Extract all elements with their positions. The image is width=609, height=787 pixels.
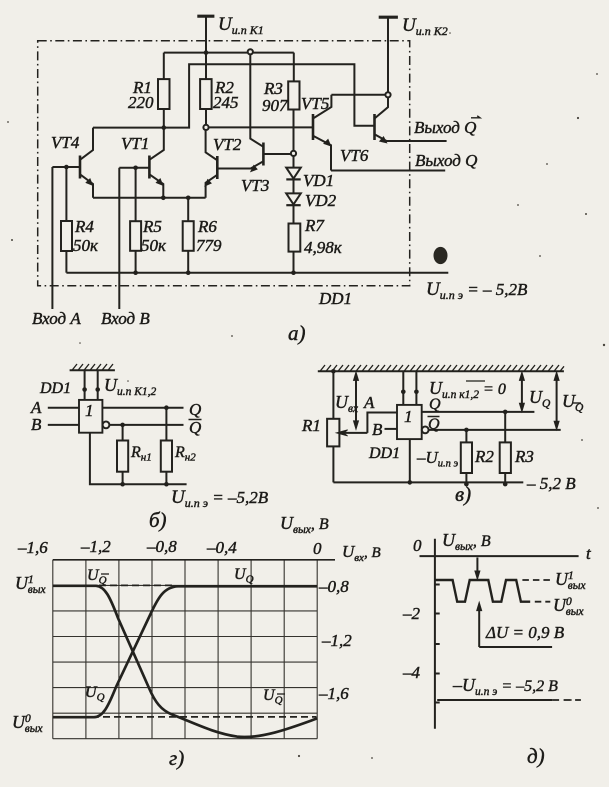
- svg-text:–Uи.п э = –5,2 В: –Uи.п э = –5,2 В: [452, 675, 558, 698]
- diode VD2: [286, 193, 301, 204]
- power rail symbol U_ipk1: [197, 15, 214, 18]
- svg-text:а): а): [288, 321, 306, 345]
- transistor VT1: [148, 156, 151, 179]
- y axis d: [434, 539, 436, 729]
- wire Uipk2 vertical: [387, 17, 389, 95]
- node dots: [64, 50, 296, 275]
- wire output Q b: [102, 407, 183, 409]
- wire diode chain: [293, 153, 295, 223]
- wire output Q v: [422, 411, 535, 413]
- UQ measure arrow v: [521, 378, 523, 407]
- wire input B b: [48, 424, 79, 426]
- deltaU leader d: [479, 646, 552, 648]
- DD1 dash-dot boundary box: [38, 41, 410, 286]
- ink blob artifact: [434, 247, 448, 264]
- resistor R5: [135, 168, 137, 221]
- wire input A: [51, 167, 53, 309]
- svg-text:DD1: DD1: [39, 380, 71, 397]
- deltaU arrow down d: [476, 558, 478, 574]
- svg-text:0: 0: [313, 539, 322, 558]
- svg-text:R1: R1: [301, 416, 321, 435]
- logic element DD1 box v: [397, 405, 422, 439]
- svg-text:–1,6: –1,6: [17, 538, 48, 557]
- svg-text:Выход Q: Выход Q: [414, 118, 476, 137]
- deltaU arrow up d: [478, 608, 480, 648]
- resistor R3 v: [504, 412, 506, 443]
- Uvx measure arrow v: [355, 378, 357, 424]
- node rings: [203, 49, 390, 156]
- dashed level U1 g: [88, 584, 174, 586]
- svg-text:R3: R3: [514, 447, 534, 466]
- svg-text:907: 907: [262, 96, 289, 115]
- curve UQbar g: [53, 586, 317, 737]
- ground hatch bar v: [318, 370, 564, 372]
- graph grid g: [53, 560, 317, 739]
- wire emitter bus: [93, 197, 206, 199]
- resistor R3: [293, 53, 295, 82]
- svg-text:Q: Q: [429, 396, 441, 413]
- transistor VT3: [262, 143, 265, 166]
- svg-text:DD1: DD1: [318, 289, 352, 308]
- svg-text:R4: R4: [74, 217, 94, 236]
- svg-text:0: 0: [413, 536, 422, 555]
- svg-text:B: B: [372, 420, 383, 439]
- svg-text:Вход В: Вход В: [101, 309, 150, 328]
- wire output Qbar b: [109, 424, 183, 426]
- svg-text:R5: R5: [142, 217, 162, 236]
- -5,2V level d: [437, 699, 552, 701]
- wire output Q lower: [331, 170, 445, 172]
- inversion bubble b: [103, 422, 110, 429]
- svg-text:R6: R6: [197, 217, 217, 236]
- transistor VT5: [312, 114, 315, 140]
- wire Uipk1 vertical: [205, 16, 207, 52]
- wiper arrow R1: [341, 432, 367, 434]
- wire top K1 bus: [164, 52, 294, 54]
- svg-text:220: 220: [128, 93, 154, 112]
- transistor VT2: [216, 156, 219, 179]
- wire K2 collector line: [331, 94, 388, 96]
- svg-text:Выход Q: Выход Q: [415, 151, 477, 170]
- svg-text:VT6: VT6: [340, 146, 369, 165]
- svg-text:VT2: VT2: [213, 135, 242, 154]
- svg-text:245: 245: [213, 93, 239, 112]
- svg-text:VT4: VT4: [51, 133, 80, 152]
- inversion bubble v: [422, 427, 429, 434]
- svg-text:VT5: VT5: [301, 94, 329, 113]
- svg-text:1: 1: [404, 407, 413, 426]
- svg-text:VT1: VT1: [121, 134, 149, 153]
- svg-text:779: 779: [196, 236, 222, 255]
- svg-text:4,98к: 4,98к: [304, 238, 343, 257]
- waveform d: [435, 580, 530, 602]
- resistor R2 v: [465, 430, 467, 443]
- resistor R7: [289, 224, 301, 252]
- wire wiper to A input v: [367, 413, 397, 433]
- svg-text:50к: 50к: [73, 236, 99, 255]
- wire power pins b: [85, 370, 98, 400]
- svg-text:–4: –4: [402, 663, 421, 682]
- node dots v: [331, 369, 507, 486]
- resistor R4: [65, 167, 67, 221]
- resistor R6: [187, 198, 189, 221]
- wire input B stub v: [385, 428, 398, 430]
- wire NOR collectors to VT6 base: [93, 64, 375, 127]
- svg-text:VD2: VD2: [305, 191, 337, 210]
- wire bottom rail b: [90, 433, 187, 485]
- transistor VT4: [79, 156, 82, 179]
- svg-text:1: 1: [85, 401, 94, 420]
- svg-text:Вход А: Вход А: [32, 309, 81, 328]
- svg-text:– 5,2 В: – 5,2 В: [526, 474, 576, 493]
- power rail symbol U_ipk2: [379, 16, 398, 19]
- transistor VT6: [373, 114, 376, 140]
- wire bottom rail: [66, 272, 448, 274]
- svg-text:Q: Q: [189, 418, 201, 437]
- wire bottom rail v: [333, 439, 523, 482]
- svg-text:–0,8: –0,8: [146, 537, 177, 556]
- svg-text:д): д): [527, 744, 545, 768]
- svg-text:ΔU = 0,9 В: ΔU = 0,9 В: [485, 623, 565, 642]
- dashed level U0 g: [92, 716, 316, 718]
- svg-text:–0,4: –0,4: [206, 538, 237, 557]
- dashed U0 level d: [535, 601, 551, 603]
- potentiometer R1 v: [332, 371, 334, 419]
- resistor Rn1: [122, 425, 124, 441]
- svg-text:в): в): [455, 482, 471, 506]
- diode VD1: [286, 168, 301, 179]
- svg-text:г): г): [169, 746, 184, 770]
- UQbar measure arrow v: [556, 378, 558, 425]
- svg-text:–1,2: –1,2: [80, 537, 111, 556]
- svg-text:Q: Q: [189, 400, 201, 419]
- axis ticks d: [435, 585, 440, 703]
- ground hatch bar b: [70, 369, 115, 371]
- svg-text:Q: Q: [428, 416, 440, 433]
- svg-text:VT3: VT3: [241, 176, 269, 195]
- wire power pins v: [403, 371, 416, 405]
- dashed U1 level d: [522, 579, 550, 581]
- svg-text:–1,6: –1,6: [318, 684, 349, 703]
- svg-text:R2: R2: [474, 447, 494, 466]
- svg-text:б): б): [149, 508, 167, 532]
- svg-text:–0,8: –0,8: [318, 577, 349, 596]
- wire input B: [118, 168, 120, 309]
- resistor R2: [205, 53, 207, 80]
- svg-text:DD1: DD1: [368, 445, 400, 462]
- svg-text:R7: R7: [304, 216, 325, 235]
- axis top g: [53, 559, 335, 561]
- svg-text:B: B: [31, 415, 42, 434]
- wire output Qbar v: [429, 429, 561, 431]
- svg-text:A: A: [363, 393, 375, 412]
- resistor Rn2: [165, 408, 167, 441]
- svg-text:–1,2: –1,2: [321, 631, 352, 650]
- svg-text:–2: –2: [402, 604, 421, 623]
- logic element DD1 box b: [79, 400, 102, 433]
- svg-text:VD1: VD1: [303, 171, 334, 190]
- t axis d: [420, 555, 579, 557]
- resistor R1: [163, 53, 165, 80]
- wire input A b: [48, 407, 79, 409]
- svg-text:50к: 50к: [141, 236, 167, 255]
- curve UQ g: [53, 586, 317, 717]
- node dots b: [82, 387, 168, 486]
- wire VT2 collector to VT5 base: [206, 126, 313, 128]
